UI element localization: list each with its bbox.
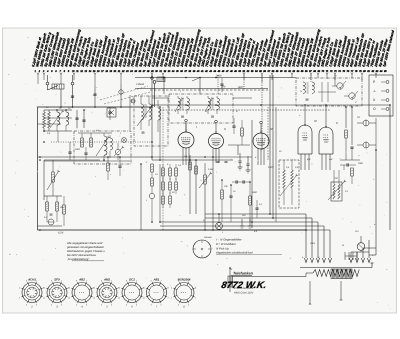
- svg-text:6,3V: 6,3V: [58, 232, 64, 235]
- svg-text:8772 W.K.: 8772 W.K.: [221, 280, 268, 290]
- svg-text:4: 4: [44, 296, 45, 299]
- svg-text:4: 4: [119, 296, 120, 299]
- svg-text:0,5M: 0,5M: [208, 168, 213, 171]
- svg-text:4: 4: [143, 296, 144, 299]
- svg-text:1: 1: [195, 296, 196, 299]
- svg-text:4: 4: [69, 296, 70, 299]
- svg-text:gemessen mit eingeschaltetem: gemessen mit eingeschaltetem: [67, 246, 105, 249]
- svg-text:bei 220V Netzanschluss: bei 220V Netzanschluss: [67, 254, 96, 257]
- svg-text:2000: 2000: [357, 162, 364, 165]
- svg-text:EF9: EF9: [54, 278, 60, 282]
- svg-text:6450 Ω bei 110V: 6450 Ω bei 110V: [234, 292, 254, 295]
- svg-text:Alle angegebenen Werte sind: Alle angegebenen Werte sind: [66, 242, 103, 245]
- svg-text:220V: 220V: [309, 242, 316, 245]
- svg-text:AB1: AB1: [153, 278, 160, 282]
- svg-text:2-Band: 2-Band: [135, 83, 145, 86]
- svg-text:Schaub: Schaub: [204, 236, 212, 239]
- svg-text:5000: 5000: [252, 191, 258, 194]
- svg-text:20V: 20V: [220, 86, 226, 89]
- svg-text:4µF: 4µF: [329, 158, 333, 161]
- svg-text:8 = W Oszillator: 8 = W Oszillator: [216, 242, 237, 246]
- svg-text:III Pick Up: III Pick Up: [216, 246, 229, 250]
- svg-text:TA: TA: [357, 116, 360, 119]
- svg-text:AB2: AB2: [78, 278, 85, 282]
- svg-text:150V: 150V: [268, 166, 274, 169]
- svg-text:5000: 5000: [75, 148, 81, 151]
- svg-text:300V: 300V: [216, 75, 222, 78]
- svg-text:360°: 360°: [238, 86, 243, 89]
- svg-text:NGN2004: NGN2004: [178, 278, 191, 282]
- svg-text:DC2: DC2: [129, 278, 135, 282]
- svg-text:8µF: 8µF: [307, 158, 311, 161]
- svg-text:„Grundeinstellung“: „Grundeinstellung“: [66, 258, 90, 261]
- svg-text:1: 1: [168, 296, 169, 299]
- svg-text:1M: 1M: [184, 155, 187, 158]
- svg-text:II: II: [224, 127, 226, 131]
- svg-text:⊥: ⊥: [373, 89, 376, 93]
- svg-text:I – IV Gegentaktfilter: I – IV Gegentaktfilter: [216, 238, 243, 242]
- svg-text:Telefunken: Telefunken: [233, 272, 254, 276]
- svg-text:Wechselstrom gegen Chassis u.: Wechselstrom gegen Chassis u.: [67, 250, 106, 253]
- svg-text:4: 4: [19, 296, 20, 299]
- svg-text:AM2: AM2: [103, 278, 110, 282]
- svg-text:III: III: [270, 127, 273, 131]
- svg-text:ACH1: ACH1: [27, 278, 36, 282]
- svg-text:4: 4: [171, 296, 172, 299]
- svg-text:Abgedeckte schablonhaft karl: Abgedeckte schablonhaft karl: [215, 251, 253, 255]
- svg-text:4: 4: [94, 296, 95, 299]
- svg-text:O: O: [373, 107, 376, 111]
